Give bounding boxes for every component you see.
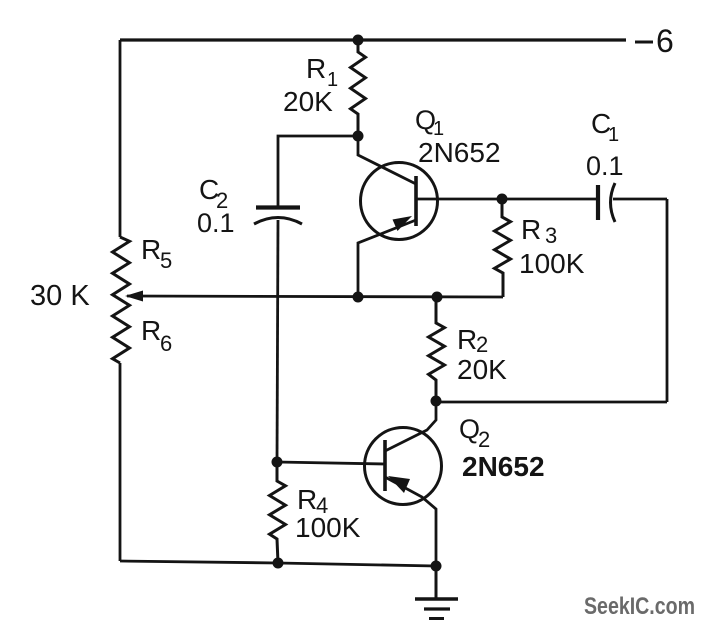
node junction R2 bottom / Q2 collector [431, 396, 442, 407]
svg-text:R: R [141, 315, 161, 346]
node junction top rail R1 [353, 35, 364, 46]
svg-text:0.1: 0.1 [197, 208, 235, 238]
svg-text:R: R [306, 53, 326, 84]
svg-text:2: 2 [478, 427, 490, 452]
svg-text:Q: Q [459, 414, 480, 444]
svg-text:6: 6 [656, 23, 674, 59]
node junction R4 bottom on bottom rail [273, 558, 284, 569]
wire top supply rail [120, 38, 626, 41]
svg-text:1: 1 [608, 124, 619, 146]
ground [415, 566, 458, 619]
svg-text:3: 3 [545, 223, 557, 248]
potentiometer wiper arrow [125, 291, 143, 302]
svg-text:6: 6 [160, 331, 172, 356]
node junction Q2 emitter / ground [431, 561, 442, 572]
svg-text:2N652: 2N652 [418, 137, 501, 168]
wire left rail upper [119, 40, 122, 237]
wire C2 top link [278, 136, 358, 206]
svg-text:30 K: 30 K [30, 280, 90, 312]
wire left rail lower [119, 363, 122, 561]
node junction Q1 emitter on mid rail [353, 292, 364, 303]
svg-text:R: R [457, 324, 477, 355]
label -6 supply [635, 41, 653, 44]
svg-text:100K: 100K [295, 512, 361, 543]
svg-text:5: 5 [160, 248, 172, 273]
svg-text:20K: 20K [457, 354, 507, 385]
node junction R1 bottom / C2 / Q1 collector [353, 131, 364, 142]
svg-text:0.1: 0.1 [586, 151, 624, 181]
resistor R3 [495, 199, 511, 297]
wire bottom rail [120, 561, 436, 566]
resistor R5 and resistor R6 (30K potentiometer) [113, 237, 130, 363]
capacitor C2 [254, 208, 302, 225]
wire mid rail wiper line [127, 296, 503, 297]
svg-text:SeekIC.com: SeekIC.com [584, 593, 695, 620]
resistor R1 [351, 40, 366, 136]
node junction Q1 base / R3 / C1 [497, 194, 508, 205]
svg-text:R: R [297, 484, 317, 515]
svg-text:R: R [141, 234, 161, 265]
node junction Q2 base / R4 / C2 [272, 457, 283, 468]
svg-text:100K: 100K [519, 248, 585, 279]
wire lower link R2 node to right rail [436, 401, 667, 404]
resistor R4 [270, 462, 286, 563]
node junction R2 top on mid rail [432, 292, 443, 303]
svg-text:R: R [521, 214, 541, 245]
resistor R2 [429, 297, 445, 401]
svg-text:2N652: 2N652 [462, 451, 545, 482]
capacitor C1 [502, 183, 667, 222]
transistor Q2 (PNP 2N652) [277, 401, 442, 566]
svg-text:20K: 20K [283, 86, 333, 117]
transistor Q1 (PNP 2N652) [358, 136, 502, 297]
wire C2 bottom stem down to Q2 base node [277, 220, 278, 462]
wire right rail from C1 down [666, 199, 669, 402]
